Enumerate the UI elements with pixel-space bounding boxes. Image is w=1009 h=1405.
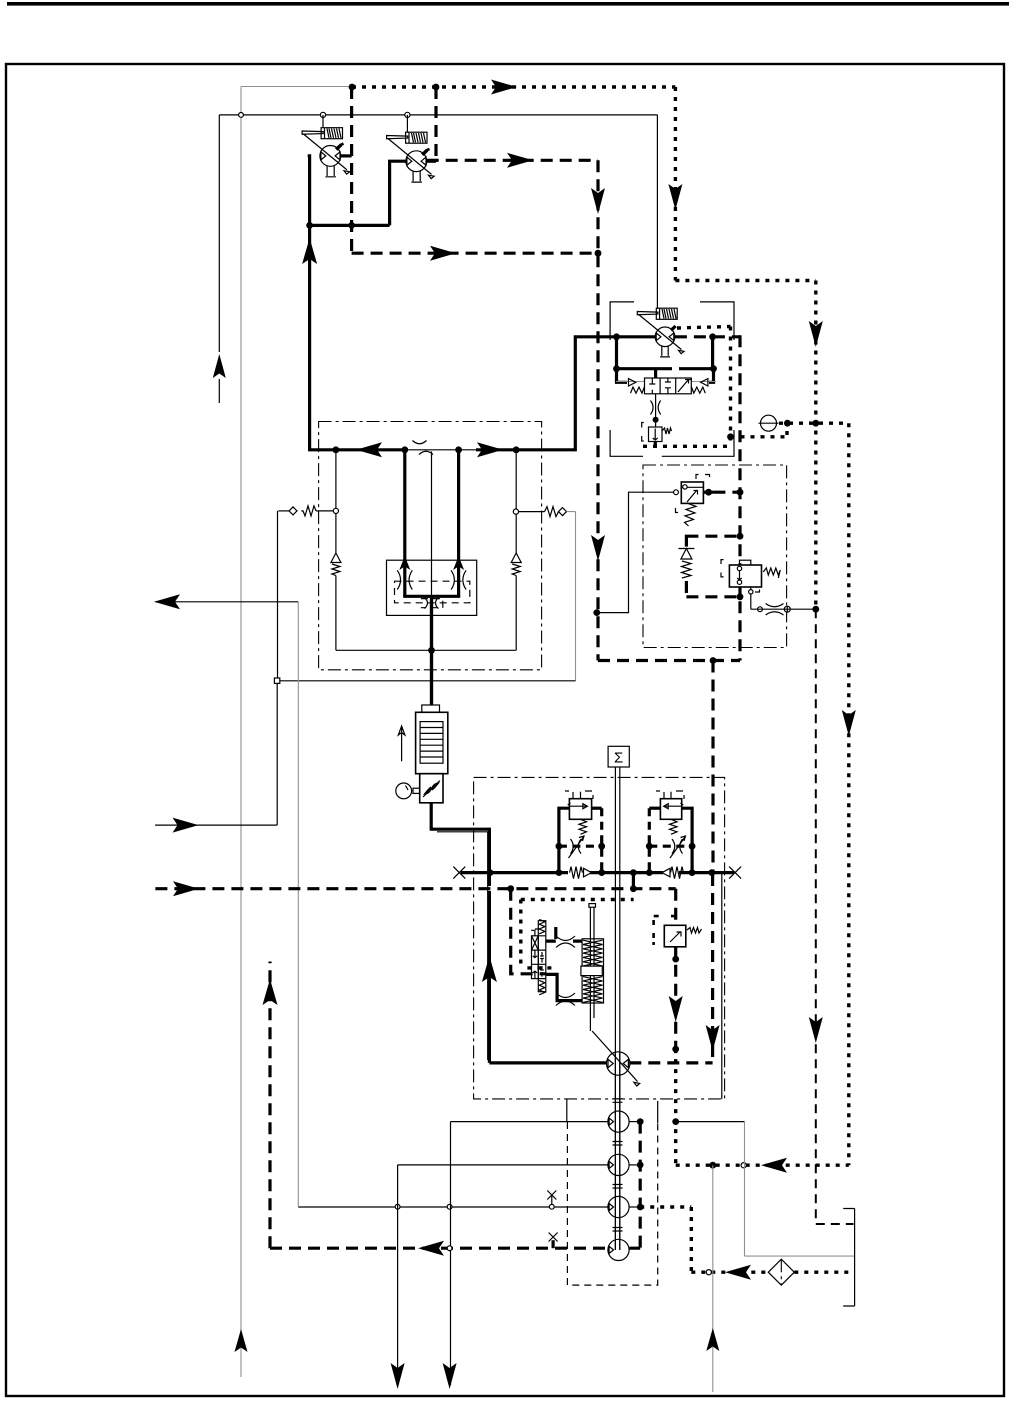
wire thin priority right pilot x516 bbox=[515, 450, 517, 553]
node junction manifold right bbox=[710, 365, 717, 372]
wire thick servo bottom L bbox=[546, 974, 582, 1000]
orifice arcs at priority inlet bbox=[413, 441, 434, 455]
pump3 block thin enclosure bbox=[610, 302, 734, 456]
wire bold dotted drain to filter bbox=[640, 1207, 853, 1272]
node junction x675 y959 bbox=[672, 956, 679, 963]
wire gray y1256 to tank bbox=[745, 1255, 855, 1257]
node junction y450 x405 bbox=[401, 446, 408, 453]
arrow down x398 bbox=[391, 1363, 405, 1389]
servo cylinder with springs bbox=[581, 904, 604, 1031]
node pilot tap circle pump1 bbox=[320, 112, 325, 117]
arrow right on dashed y160 bbox=[507, 153, 533, 168]
pump P3 variable pump bbox=[637, 308, 684, 357]
wire LS left vertical x277 bbox=[277, 511, 279, 678]
sigma summation box bbox=[608, 746, 629, 767]
wire thin LS left lead bbox=[278, 510, 289, 512]
wire gray LS right to corner bbox=[567, 512, 576, 681]
flow meter assembly bbox=[396, 596, 448, 803]
wire gray x744 down bbox=[744, 1122, 746, 1257]
node junction pilot to LS x597 bbox=[593, 609, 600, 616]
wire bold dotted drain y326 from pump3 bbox=[677, 327, 731, 329]
thin inner boundary right bbox=[721, 874, 723, 1099]
wire LS dashed vertical x352 bbox=[350, 87, 353, 253]
node circle on dotted y1272 bbox=[706, 1270, 711, 1275]
node junctions main gallery bbox=[487, 869, 494, 876]
wire thick link x712 to manifold bbox=[711, 337, 714, 369]
wire suction line circle2 left bbox=[451, 1121, 608, 1123]
gauge pressure indicator bbox=[759, 415, 779, 431]
pump chain circle 3 bbox=[608, 1154, 629, 1175]
node junction x816 y423 bbox=[812, 420, 819, 427]
arrow left on y1165 bbox=[761, 1158, 787, 1173]
node drain port cross circle bbox=[784, 606, 790, 612]
wire thin below left check bbox=[335, 576, 337, 651]
wire thick relief A left leg bbox=[559, 808, 570, 872]
arrow down on x598 upper bbox=[591, 188, 605, 214]
arrow right on dotted top line bbox=[491, 80, 517, 95]
wire thin vertical x450 to bottom arrow bbox=[450, 1122, 452, 1385]
arrow up on gray left vertical bbox=[235, 1329, 248, 1352]
wire gray reference vertical left bbox=[240, 87, 242, 1378]
shaft coupling ticks bbox=[613, 1099, 623, 1231]
arrow down on x675 bbox=[669, 996, 683, 1022]
thin boundary hugging elbow bbox=[437, 832, 488, 1060]
node junction y87 x436 bbox=[433, 84, 440, 91]
wire bold dotted drain x730 bbox=[729, 327, 732, 447]
node hop circles on y1207 bbox=[395, 1204, 400, 1209]
servo spool valve stack bbox=[531, 919, 546, 994]
wire thick valve P drop bbox=[654, 369, 657, 379]
wire LS dashed y160 pump2 to x598 bbox=[427, 159, 598, 162]
arrow left on y1272 bbox=[725, 1265, 751, 1280]
wire thin vertical x398 to bottom arrow bbox=[397, 1165, 399, 1385]
node LS tap circle right bbox=[513, 509, 518, 514]
wire thick divider right leg bbox=[457, 450, 460, 597]
node junction y450 x458 bbox=[455, 446, 462, 453]
arrow down x450 bbox=[443, 1363, 457, 1389]
wire thick dashed relief B left leg bbox=[649, 807, 660, 810]
arrow up x270 bbox=[263, 979, 278, 1005]
arrow up on x489 bbox=[482, 956, 497, 982]
wire gray top horizontal to node bbox=[241, 86, 352, 88]
arrow down on x816 upper bbox=[809, 321, 823, 347]
check valve in loop bbox=[681, 549, 692, 560]
arrow down on dotted x675 bbox=[668, 184, 682, 210]
node junction x675 y1121 bbox=[672, 1118, 679, 1125]
wire gray x712 down to port bbox=[712, 1165, 714, 1392]
wire thin priority left pilot x336 bbox=[335, 450, 337, 553]
node junction x730 y437 bbox=[727, 433, 734, 440]
wire thick pilot elbow left valve bbox=[617, 369, 628, 383]
wire thick suction down x309 bbox=[308, 225, 311, 449]
filter diamond bbox=[768, 1259, 794, 1285]
wire external tank line to arrow y825 bbox=[155, 683, 277, 825]
variable pump servo main circle bbox=[607, 1052, 630, 1075]
node junction below throttle bbox=[653, 417, 659, 423]
check valve priority left bbox=[331, 553, 341, 576]
wire medium dashed x816 to tank bbox=[816, 1223, 854, 1225]
dash-dot enclosure relief group bbox=[643, 465, 787, 648]
wire thick dashed drain bottom y660 bbox=[598, 659, 740, 662]
node hop circle gray crossing bbox=[239, 113, 244, 118]
servo orifice arcs top bbox=[556, 936, 575, 948]
wire thick servo to cylinder top bbox=[546, 939, 582, 942]
wire thick supply y450 to pump3 bbox=[308, 337, 655, 452]
wire thick pilot elbow right valve bbox=[709, 369, 714, 383]
wire thick dashed pump3 outlet y337 bbox=[675, 335, 740, 338]
mechanical shaft overlay through pumps bbox=[615, 1052, 619, 1250]
priority divider right orifice arcs bbox=[451, 570, 466, 589]
pump chain circle 2 bbox=[608, 1111, 629, 1132]
node junction y87 x352 bbox=[349, 84, 356, 91]
relief block B dashed corners bbox=[656, 791, 684, 799]
node drain circle bbox=[758, 607, 763, 612]
wire thick dashed throttle line B bbox=[649, 845, 692, 848]
priority divider left orifice arcs bbox=[397, 570, 412, 589]
arrow left on y1248 bbox=[418, 1241, 444, 1256]
wire bold dotted y1165 return bbox=[676, 1163, 849, 1166]
node junctions block B bbox=[646, 843, 653, 850]
pump chain circle 4 bbox=[608, 1196, 629, 1217]
arrow right on y888 bbox=[173, 881, 199, 896]
node hop on y1248 bbox=[447, 1246, 452, 1251]
pump P2 variable displacement pump bbox=[387, 115, 435, 182]
arrow down on x849 bbox=[842, 710, 856, 736]
wire bold dotted vertical x816 upper bbox=[814, 281, 817, 610]
wire external LS drain y602 with arrow bbox=[155, 601, 298, 603]
arrow up on thick x309 bbox=[302, 238, 317, 264]
thin stub links enclosure bbox=[567, 1100, 658, 1124]
relief valve B bbox=[660, 799, 683, 835]
wire port circle4 to junction bbox=[629, 1206, 640, 1208]
wire suction line circle3 left bbox=[398, 1164, 608, 1166]
wire drain y681 to x575 bbox=[280, 680, 576, 682]
wire thick relief R1 outlet bbox=[703, 491, 713, 494]
node pilot tap circle pump2 bbox=[405, 112, 410, 117]
arrow up gray x712 bbox=[706, 1328, 719, 1351]
wire reducing valve drain bbox=[750, 587, 752, 609]
arrow right on y825 bbox=[173, 818, 199, 833]
wire thick manifold y368 bbox=[617, 367, 714, 370]
node port square x277 bbox=[274, 678, 279, 683]
wire thick dashed tank external y1248 bbox=[270, 1247, 608, 1250]
node junction drain to x816 bbox=[812, 606, 819, 613]
wire thin drain header y650 bbox=[336, 649, 516, 651]
wire thick dashed x675 down bbox=[674, 889, 677, 1049]
relief A pilot stub bbox=[580, 792, 582, 799]
wire thick dashed horizontal to pump top bbox=[629, 1061, 712, 1064]
node junction y450 x336 bbox=[333, 446, 340, 453]
wire bold dotted gauge to corner x849 bbox=[779, 422, 849, 425]
wire LS dashed vertical x598 bbox=[596, 160, 599, 660]
wire thick y225 common suction bbox=[310, 224, 390, 227]
wire bold dashed case drain column x640 bbox=[629, 1122, 640, 1249]
relief valve pump3 block bbox=[642, 423, 672, 442]
wire case line circle4 left bbox=[298, 1206, 608, 1208]
wire medium dashed vertical x816 lower bbox=[815, 609, 817, 1224]
tank bracket symbol bbox=[843, 1209, 854, 1307]
bottom external line y1206 hops bbox=[297, 1205, 299, 1207]
node junction y253 x598 bbox=[595, 250, 602, 257]
wire dotted drain vertical x675 bbox=[674, 87, 677, 281]
arrowhead up small on right leg bbox=[453, 556, 464, 570]
mechanical shaft double line bbox=[615, 767, 619, 1250]
wire thick dashed servo pilot left bbox=[511, 889, 547, 974]
node junction x675 y1049 bbox=[672, 1046, 679, 1053]
node junction y1165 x712 bbox=[709, 1162, 716, 1169]
feedback lever to pump bbox=[592, 1031, 637, 1082]
wire thick dashed x712 servo bbox=[711, 874, 714, 1063]
wire thick divider left leg bbox=[403, 450, 406, 597]
svg-text:Σ: Σ bbox=[614, 750, 623, 767]
pump P1 suction elbow thick bbox=[308, 154, 310, 225]
spring check LS left bbox=[301, 506, 333, 516]
throttle adjustable B bbox=[670, 836, 686, 858]
wire thick dashed throttle line A bbox=[559, 845, 602, 848]
pump chain circle 5 bbox=[608, 1239, 629, 1260]
directional valve 3-position bbox=[616, 378, 716, 394]
wire LS dashed vertical x436 bbox=[434, 87, 437, 160]
wire thick link x633 gallery to pilot bbox=[632, 873, 635, 889]
plugged stub on y1248 bbox=[549, 1233, 558, 1249]
arrow down on x816 lower bbox=[809, 1017, 823, 1043]
node junction x740 y536 bbox=[737, 533, 744, 540]
wire LS dashed y253 bbox=[352, 252, 598, 255]
arrow up on x219 stub bbox=[213, 354, 226, 378]
X plug left end bbox=[453, 867, 465, 879]
wire pilot thin vertical to pump3 spring bbox=[656, 115, 658, 308]
wire thick relief B right leg bbox=[682, 808, 692, 872]
check valve loop thick dashed bbox=[686, 535, 740, 599]
bold dotted servo enclosure bbox=[521, 900, 634, 968]
node junction gauge y423 bbox=[784, 420, 791, 427]
wire drain orifice line bbox=[751, 608, 816, 610]
wire thick main gallery y872 bbox=[461, 871, 735, 874]
node circle below valve bbox=[749, 590, 753, 594]
check valve priority right bbox=[511, 553, 521, 576]
spring check in gallery right bbox=[662, 867, 684, 879]
wire thick main supply down from divider bbox=[430, 596, 433, 705]
node junction y225 x309 bbox=[306, 222, 313, 229]
relief valve R1 bbox=[676, 475, 710, 526]
wire pilot thin horizontal y115 bbox=[219, 114, 657, 116]
pump P1 pressure port to dashed bbox=[341, 154, 352, 157]
priority valve block dash-dot enclosure bbox=[319, 422, 542, 670]
wire bold dotted x675 lower bbox=[674, 1049, 677, 1165]
wire thick divider U bottom bbox=[403, 595, 460, 598]
title bar line bbox=[7, 2, 1009, 6]
wire relief R1 pilot line bbox=[597, 492, 673, 612]
servo relief valve bbox=[664, 925, 701, 955]
pump P2 suction elbow thick bbox=[390, 160, 406, 226]
node junction manifold left bbox=[613, 365, 620, 372]
pump P1 variable displacement pump bbox=[302, 115, 350, 177]
priority flow divider thin box bbox=[387, 560, 477, 615]
priority divider inner dashed box bbox=[395, 581, 470, 607]
node junction y660 x713 bbox=[710, 657, 717, 664]
thin metering section y450 bbox=[405, 449, 478, 451]
wire thick meter outlet elbow bbox=[431, 803, 489, 886]
wire thin below right check bbox=[515, 576, 517, 651]
wire thin link x675 to gray right bbox=[676, 1121, 745, 1123]
wire thick dashed x713 down to main line bbox=[711, 661, 714, 872]
wire bold dotted drain bottom y446 bbox=[643, 445, 731, 448]
plugged port on y1207 bbox=[547, 1191, 556, 1210]
node circle y1165 x743 bbox=[741, 1163, 746, 1168]
wire thick x489 below hop bbox=[488, 891, 491, 1063]
node junction x740 y492 bbox=[737, 489, 744, 496]
node junction y888 x633 bbox=[630, 885, 637, 892]
node junction R1 outlet bbox=[705, 489, 712, 496]
wire gray case drain x298 bbox=[297, 602, 299, 1207]
wire bold dotted y437 to gauge line bbox=[731, 425, 788, 437]
wire thick dashed external up x270 bbox=[268, 962, 271, 1249]
wire thick dashed right edge x740 bbox=[738, 335, 741, 660]
wire thick dashed pilot y888 external bbox=[155, 887, 675, 890]
spring check LS right bbox=[519, 507, 559, 517]
node relief R1 pilot circle bbox=[674, 490, 679, 495]
relief B pilot stub bbox=[670, 792, 672, 799]
X plug right end bbox=[729, 867, 741, 879]
pressure reducing valve PR bbox=[721, 560, 780, 592]
orifice arcs on drain line bbox=[766, 604, 784, 616]
arrow right on thick y450 bbox=[477, 442, 503, 457]
thin dashed enclosure pump chain bbox=[567, 1122, 657, 1285]
throttle below valve bbox=[655, 394, 657, 427]
wire dotted drain top y87 bbox=[352, 85, 675, 88]
servo relief dotted corners bbox=[654, 916, 679, 945]
node junction x740 y597 bbox=[737, 593, 744, 600]
node junction y888 x510 bbox=[507, 885, 514, 892]
wire bold dotted vertical x849 bbox=[847, 423, 850, 1165]
pump P2 pressure port bbox=[427, 160, 436, 163]
arrow down on x598 lower bbox=[591, 535, 605, 561]
wire port circle3 to junction bbox=[629, 1164, 640, 1166]
relief valve A bbox=[568, 799, 592, 835]
wire external stub x219 with break bbox=[218, 115, 220, 403]
arrow left on y602 bbox=[154, 594, 180, 609]
spring check in gallery left bbox=[570, 867, 592, 879]
arrow right on dashed y253 bbox=[430, 246, 456, 261]
relief block A dashed corners bbox=[565, 791, 593, 799]
node junctions block A bbox=[556, 843, 563, 850]
servo orifice arcs bottom bbox=[556, 993, 575, 1006]
node junction pump3 inlet x616 bbox=[613, 333, 620, 340]
wire port circle2 to junction bbox=[629, 1121, 640, 1123]
dash-dot enclosure servo group bbox=[474, 777, 725, 1099]
wire dotted drain y280 bbox=[675, 279, 815, 282]
check ball LS left bbox=[289, 507, 297, 515]
wire thick dashed relief A right leg bbox=[592, 807, 602, 810]
node junction y225 x352 bbox=[348, 222, 355, 229]
throttle adjustable A bbox=[569, 836, 585, 858]
node junction y337 x712 bbox=[709, 333, 716, 340]
wire thin center sense line bbox=[431, 451, 433, 596]
priority small arcs below U bbox=[425, 598, 439, 609]
check ball LS right bbox=[559, 508, 567, 516]
arrow left on thick y450 bbox=[356, 442, 382, 457]
node junction y450 x516 bbox=[513, 446, 520, 453]
node junction y650 center bbox=[428, 647, 435, 654]
arrowhead up small on left leg bbox=[399, 556, 410, 570]
arrow down on x712 bbox=[706, 1025, 720, 1051]
wire relief to drain dotted bbox=[654, 442, 657, 447]
node LS tap circle left bbox=[333, 508, 338, 513]
wire thick solid pump feed bottom bbox=[489, 1061, 607, 1064]
wire thick link x616 to manifold bbox=[615, 337, 618, 369]
